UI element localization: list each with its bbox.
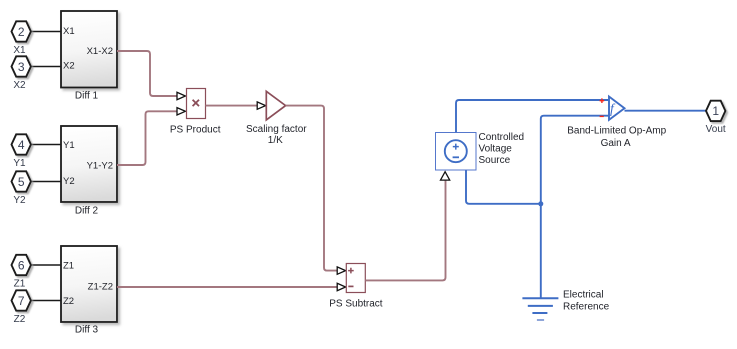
label Scaling factor 1/K [246, 124, 307, 146]
wire: PS Subtract output to Controlled Voltage Source input [365, 181, 445, 281]
svg-text:Voltage: Voltage [479, 144, 513, 155]
inport 6 [12, 255, 31, 275]
wire: PS Product output to Scaling factor [206, 105, 258, 107]
svg-text:Z1: Z1 [14, 278, 26, 289]
svg-text:X2: X2 [63, 60, 75, 71]
wire: port 7 to Diff 3 Z2 [30, 300, 62, 302]
op-amp Band-Limited Op-Amp [600, 97, 625, 120]
svg-text:Gain A: Gain A [601, 138, 631, 149]
arrow: PS Product in1 [177, 92, 185, 99]
svg-text:Y1: Y1 [13, 158, 26, 169]
wire: CVS - terminal down and right to node [466, 170, 541, 204]
label Y2 [13, 195, 26, 206]
label Diff 1 [75, 91, 99, 102]
wire: Diff 1 output to PS Product in1 [117, 51, 177, 96]
label Diff 3 [75, 325, 99, 336]
svg-text:1/K: 1/K [268, 135, 283, 146]
label Y1 [13, 158, 26, 169]
svg-text:Controlled: Controlled [479, 132, 525, 143]
svg-text:X1: X1 [13, 45, 26, 56]
wire: port 2 to Diff 1 X1 [30, 31, 62, 33]
svg-text:2: 2 [18, 25, 25, 39]
arrow: PS Subtract in2 [337, 283, 345, 290]
wire: port 6 to Diff 3 Z1 [30, 264, 62, 266]
inport 7 [12, 290, 31, 310]
svg-text:X2: X2 [13, 80, 26, 91]
block PS Product [187, 89, 206, 119]
svg-text:X1-X2: X1-X2 [87, 46, 113, 57]
wire: node to op-amp inverting input and ground [541, 116, 609, 298]
label PS Product [170, 125, 221, 136]
svg-text:Y1: Y1 [63, 140, 75, 151]
svg-text:Scaling factor: Scaling factor [246, 124, 307, 135]
svg-text:Z2: Z2 [63, 296, 74, 307]
block PS Subtract [346, 264, 365, 293]
label X1 [13, 45, 26, 56]
svg-text:Diff 1: Diff 1 [75, 91, 99, 102]
label Vout [706, 124, 726, 135]
arrow: Controlled Voltage Source PS input [441, 172, 450, 180]
arrow: PS Product in2 [177, 108, 185, 115]
ground Electrical Reference [522, 298, 558, 320]
svg-text:PS Product: PS Product [170, 125, 221, 136]
source Controlled Voltage Source [436, 133, 477, 171]
svg-text:Electrical: Electrical [563, 289, 604, 300]
svg-text:Diff 2: Diff 2 [75, 206, 99, 217]
arrow: PS Subtract in1 [337, 267, 345, 274]
svg-text:Band-Limited Op-Amp: Band-Limited Op-Amp [567, 125, 666, 136]
label Controlled Voltage Source [479, 132, 525, 166]
wire: CVS + terminal to op-amp noninverting input [456, 100, 608, 132]
gain Scaling factor [266, 91, 285, 120]
svg-text:X1: X1 [63, 26, 75, 37]
svg-text:Y2: Y2 [13, 195, 26, 206]
label Band-Limited Op-Amp Gain A [567, 125, 666, 149]
arrow: Scaling factor input [257, 102, 265, 109]
svg-text:PS Subtract: PS Subtract [329, 299, 383, 310]
svg-text:1: 1 [712, 104, 719, 118]
label Diff 2 [75, 206, 99, 217]
label PS Subtract [329, 299, 383, 310]
svg-text:Vout: Vout [706, 124, 726, 135]
label Z2 [14, 314, 26, 325]
subsystem Diff 2 [61, 126, 117, 202]
svg-text:Y1-Y2: Y1-Y2 [87, 160, 113, 171]
wire: op-amp output to Vout [625, 110, 707, 112]
label Z1 [14, 278, 26, 289]
label Electrical Reference [563, 289, 610, 312]
svg-text:Z1: Z1 [63, 261, 74, 272]
svg-text:Y2: Y2 [63, 176, 75, 187]
wire: port 4 to Diff 2 Y1 [30, 144, 62, 146]
wire: Diff 2 output to PS Product in2 [117, 111, 177, 165]
junction node [538, 201, 543, 206]
subsystem Diff 3 [61, 246, 117, 322]
label X2 [13, 80, 26, 91]
wire: port 5 to Diff 2 Y2 [30, 181, 62, 183]
outport 1 (Vout) [706, 101, 725, 121]
svg-text:3: 3 [18, 60, 25, 74]
svg-text:Diff 3: Diff 3 [75, 325, 99, 336]
wire: Diff 3 output to PS Subtract in2 [117, 286, 337, 288]
svg-text:5: 5 [18, 175, 25, 189]
wire: Scaling factor output to PS Subtract in1 [286, 106, 337, 271]
svg-text:Z1-Z2: Z1-Z2 [88, 282, 113, 293]
svg-text:7: 7 [18, 294, 25, 308]
inport 5 [12, 171, 31, 191]
wire: port 3 to Diff 1 X2 [30, 66, 62, 68]
inport 4 [12, 134, 31, 154]
svg-text:4: 4 [18, 138, 25, 152]
inport 2 [12, 21, 31, 41]
inport 3 [12, 56, 31, 76]
svg-text:6: 6 [18, 258, 25, 272]
subsystem Diff 1 [61, 11, 117, 88]
svg-text:Z2: Z2 [14, 314, 26, 325]
svg-text:Reference: Reference [563, 301, 610, 312]
svg-text:Source: Source [479, 155, 511, 166]
